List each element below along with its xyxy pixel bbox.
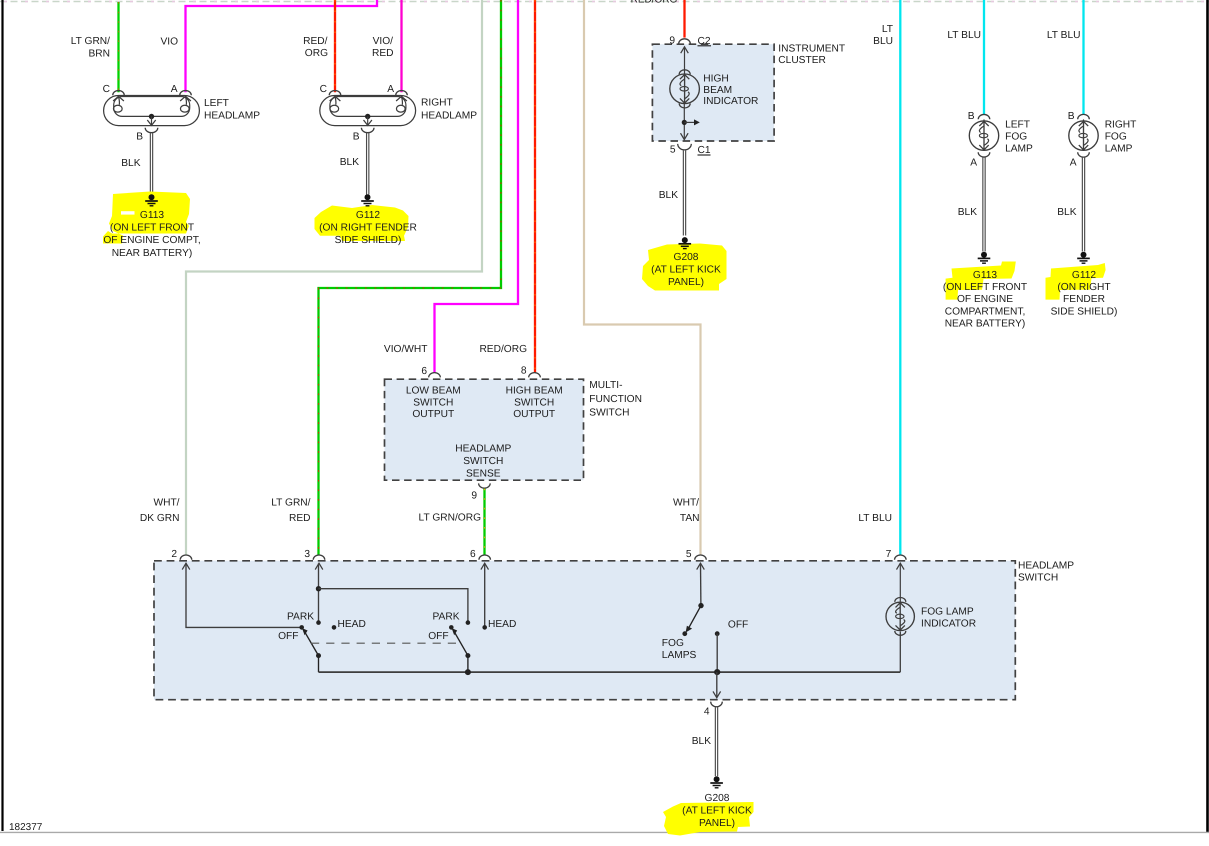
svg-text:HEADLAMP: HEADLAMP: [204, 111, 260, 122]
fog switch lever: [688, 606, 701, 630]
svg-text:LT BLU: LT BLU: [1047, 30, 1081, 41]
svg-text:7: 7: [886, 549, 892, 560]
svg-text:LT BLU: LT BLU: [858, 513, 892, 524]
svg-text:LT BLU: LT BLU: [947, 30, 981, 41]
svg-text:G208: G208: [674, 252, 699, 263]
pin 7 arrow headlamp switch: [897, 563, 905, 569]
svg-text:G113: G113: [973, 270, 997, 281]
svg-text:HEADLAMP: HEADLAMP: [1018, 561, 1074, 572]
page bottom rule: [0, 831, 1209, 833]
node pin3 branch: [316, 586, 321, 591]
svg-text:LT: LT: [882, 24, 893, 35]
ground G113 left fog: [981, 252, 987, 258]
svg-text:PARK: PARK: [287, 612, 314, 623]
svg-text:6: 6: [421, 366, 427, 377]
svg-text:SENSE: SENSE: [466, 468, 501, 479]
svg-text:RIGHT: RIGHT: [1105, 119, 1137, 130]
pin 8 connector MFS: [529, 373, 541, 378]
svg-text:(ON RIGHT FENDER: (ON RIGHT FENDER: [319, 223, 417, 234]
svg-text:(ON RIGHT: (ON RIGHT: [1057, 282, 1110, 293]
svg-text:FOG: FOG: [1105, 131, 1127, 142]
svg-text:RED: RED: [372, 48, 394, 59]
svg-text:4: 4: [704, 707, 710, 718]
svg-text:OUTPUT: OUTPUT: [513, 409, 555, 420]
highlight G208 cluster: [642, 244, 727, 291]
pin 3 arrow headlamp switch: [315, 563, 323, 569]
switch 1 (park/head/off): [299, 625, 304, 630]
pin 6 arrow headlamp switch: [481, 563, 489, 569]
svg-text:BLK: BLK: [340, 157, 359, 168]
pin 7 connector headlamp switch: [895, 555, 907, 560]
svg-text:PANEL): PANEL): [699, 818, 735, 829]
svg-text:WHT/: WHT/: [673, 498, 699, 509]
svg-text:(ON LEFT FRONT: (ON LEFT FRONT: [110, 223, 194, 234]
svg-text:G112: G112: [356, 210, 380, 221]
wire BLK left headlamp: [149, 133, 151, 195]
svg-text:SIDE SHIELD): SIDE SHIELD): [335, 235, 402, 246]
svg-text:INSTRUMENT: INSTRUMENT: [778, 44, 845, 55]
svg-text:LEFT: LEFT: [204, 98, 229, 109]
ground G208 switch: [714, 776, 720, 782]
wire LT GRN/BRN to left headlamp pin C: [117, 2, 119, 92]
pin 4 connector: [711, 702, 723, 707]
wire OFF contact to bus: [716, 634, 718, 672]
svg-text:2: 2: [171, 549, 177, 560]
svg-text:C: C: [320, 84, 327, 95]
high beam indicator connector top: [679, 70, 690, 75]
wire BLK right fog: [1081, 157, 1083, 252]
svg-text:FOG: FOG: [662, 638, 684, 649]
wire RED/ORG to MFS pin 8: [534, 0, 536, 373]
pin 5 connector C1: [678, 144, 692, 150]
svg-text:C2: C2: [698, 36, 711, 47]
svg-text:DK GRN: DK GRN: [140, 513, 180, 524]
svg-text:LAMP: LAMP: [1005, 144, 1033, 155]
pin 5 connector headlamp switch: [695, 555, 707, 560]
ground G112 right headlamp: [365, 194, 371, 200]
high beam indicator lamp: [670, 74, 700, 104]
svg-text:NEAR BATTERY): NEAR BATTERY): [112, 248, 193, 259]
svg-text:HEAD: HEAD: [338, 619, 366, 630]
svg-text:BLK: BLK: [121, 158, 140, 169]
wire RED/ORG to instrument cluster pin 9: [683, 0, 685, 38]
headlamp switch box: [154, 561, 1015, 700]
svg-text:FOG: FOG: [1005, 131, 1027, 142]
highlight G112 right fog: [1046, 263, 1106, 300]
brown tracer on LT GRN/BRN: [118, 2, 120, 92]
orange tracer LT GRN/ORG: [484, 489, 486, 556]
svg-text:PANEL): PANEL): [668, 277, 704, 288]
wire BLK right headlamp: [366, 133, 368, 195]
wire bus to pin 4: [716, 672, 718, 697]
right fog lamp: [1078, 114, 1090, 119]
multi-function switch box: [385, 379, 584, 480]
wire LT BLU to left fog lamp: [983, 0, 985, 115]
svg-text:CLUSTER: CLUSTER: [778, 55, 826, 66]
svg-text:(AT LEFT KICK: (AT LEFT KICK: [682, 805, 752, 816]
svg-text:G113: G113: [140, 210, 164, 221]
svg-text:BLU: BLU: [873, 36, 893, 47]
svg-text:INDICATOR: INDICATOR: [921, 619, 976, 630]
highlight G208 bottom: [663, 802, 754, 836]
page top dashed border: [0, 1, 1209, 3]
svg-text:HEADLAMP: HEADLAMP: [455, 443, 511, 454]
fog switch FOG contact: [682, 631, 687, 636]
node with stub arrow: [682, 120, 687, 125]
svg-text:RIGHT: RIGHT: [421, 98, 453, 109]
svg-text:SWITCH: SWITCH: [514, 397, 554, 408]
ground G208 instrument cluster: [682, 237, 688, 243]
svg-text:LAMP: LAMP: [1105, 144, 1133, 155]
highlight G113 left fog: [946, 262, 1016, 300]
svg-text:SWITCH: SWITCH: [463, 456, 503, 467]
wire indicator to bus: [899, 632, 901, 673]
bus wire across switch: [319, 671, 901, 673]
svg-text:HEAD: HEAD: [488, 619, 516, 630]
wire VIO/WHT to MFS pin 6: [435, 0, 519, 373]
pin 5 arrow headlamp switch: [697, 563, 705, 569]
wire LT GRN/RED to switch pin 3: [319, 0, 502, 556]
wire WHT/TAN to switch pin 5: [584, 0, 701, 556]
ground G112 right fog: [1081, 252, 1087, 258]
wire VIO/RED to right headlamp pin A: [400, 0, 402, 92]
highlight G112 right: [315, 205, 409, 241]
page left border: [1, 0, 3, 831]
svg-text:A: A: [171, 84, 178, 95]
fog switch pivot: [698, 603, 703, 608]
svg-text:BEAM: BEAM: [703, 85, 732, 96]
pin 6 connector MFS: [429, 373, 441, 378]
highlight G113 left: [103, 192, 190, 244]
svg-text:VIO/WHT: VIO/WHT: [384, 344, 428, 355]
svg-text:FUNCTION: FUNCTION: [589, 394, 642, 405]
wire LT BLU to right fog lamp: [1082, 0, 1084, 115]
wire pin5 to fog switch: [700, 563, 702, 605]
orange tracer on RED/ORG 2: [534, 0, 536, 373]
svg-text:BLK: BLK: [958, 207, 977, 218]
svg-text:MULTI-: MULTI-: [589, 380, 622, 391]
wire RED/ORG to right headlamp pin C: [334, 0, 336, 92]
svg-text:A: A: [387, 84, 394, 95]
svg-text:VIO/: VIO/: [373, 36, 394, 47]
svg-text:RED: RED: [289, 513, 311, 524]
svg-text:LAMPS: LAMPS: [662, 650, 697, 661]
pin 3 connector headlamp switch: [313, 555, 325, 560]
bus node pin4: [714, 669, 720, 675]
svg-text:A: A: [1070, 158, 1077, 169]
svg-text:SWITCH: SWITCH: [1018, 573, 1058, 584]
svg-text:BLK: BLK: [659, 190, 678, 201]
orange tracer on RED/ORG: [334, 0, 336, 92]
svg-text:9: 9: [471, 491, 477, 502]
fog lamp indicator connector bottom: [895, 631, 906, 635]
svg-text:3: 3: [304, 549, 310, 560]
svg-text:LEFT: LEFT: [1005, 119, 1030, 130]
wire pin2 to OFF contact: [186, 563, 302, 627]
pin 2 connector headlamp switch: [180, 555, 192, 560]
svg-text:5: 5: [686, 549, 692, 560]
svg-text:OFF: OFF: [278, 631, 298, 642]
wire BLK instrument cluster: [682, 150, 684, 235]
wire VIO to left headlamp pin A: [186, 0, 378, 92]
svg-text:LOW BEAM: LOW BEAM: [406, 386, 461, 397]
wire pin7 to fog lamp indicator: [899, 563, 901, 601]
wire pin6 to HEAD contact: [484, 563, 486, 627]
fog switch OFF contact: [715, 631, 720, 636]
pin 9 connector C2: [679, 39, 691, 44]
svg-text:9: 9: [669, 36, 675, 47]
svg-text:RED/ORG: RED/ORG: [479, 344, 527, 355]
svg-text:NEAR BATTERY): NEAR BATTERY): [945, 318, 1026, 329]
svg-text:BLK: BLK: [1057, 207, 1076, 218]
svg-text:LT GRN/ORG: LT GRN/ORG: [419, 513, 482, 524]
svg-text:B: B: [1068, 111, 1075, 122]
svg-text:B: B: [353, 132, 360, 143]
pin 6 connector headlamp switch: [479, 555, 491, 560]
svg-text:C: C: [103, 84, 110, 95]
wire pin3 node to switch2 PARK: [319, 589, 468, 623]
wire pin3 to PARK contact: [318, 563, 320, 622]
svg-text:HIGH BEAM: HIGH BEAM: [506, 386, 563, 397]
wire LT GRN/ORG pin9 to pin6: [483, 489, 485, 556]
svg-text:ORG: ORG: [305, 48, 328, 59]
svg-text:(AT LEFT KICK: (AT LEFT KICK: [651, 265, 721, 276]
wire WHT/DK GRN to switch pin 2: [186, 0, 482, 556]
switch 2 (park/head/off): [449, 625, 454, 630]
svg-text:8: 8: [521, 366, 527, 377]
instrument cluster box: [652, 44, 774, 141]
high beam indicator connector bottom: [679, 103, 690, 108]
svg-text:OFF: OFF: [428, 631, 448, 642]
svg-text:G208: G208: [705, 793, 730, 804]
svg-text:182377: 182377: [9, 822, 43, 833]
wire LT BLU to switch pin 7: [899, 0, 901, 556]
svg-text:INDICATOR: INDICATOR: [703, 96, 758, 107]
svg-text:C1: C1: [698, 145, 711, 156]
svg-text:LT GRN/: LT GRN/: [271, 498, 310, 509]
svg-text:FOG LAMP: FOG LAMP: [921, 607, 974, 618]
svg-text:VIO: VIO: [160, 37, 178, 48]
wire into high beam indicator: [684, 47, 686, 75]
arrow to pin 5: [681, 133, 689, 139]
svg-text:SWITCH: SWITCH: [589, 407, 629, 418]
pin 2 arrow headlamp switch: [182, 563, 190, 569]
pin 9 connector MFS: [479, 483, 491, 488]
svg-text:OF ENGINE COMPT,: OF ENGINE COMPT,: [103, 235, 200, 246]
svg-text:6: 6: [470, 549, 476, 560]
svg-text:B: B: [136, 132, 143, 143]
svg-text:WHT/: WHT/: [153, 498, 179, 509]
svg-text:PARK: PARK: [433, 612, 460, 623]
svg-text:OFF: OFF: [728, 620, 748, 631]
wire BLK switch pin4: [714, 707, 716, 776]
page right border: [1206, 0, 1209, 832]
fog lamp indicator lamp: [886, 602, 914, 630]
svg-text:HIGH: HIGH: [703, 74, 728, 85]
svg-text:G112: G112: [1072, 270, 1096, 281]
left headlamp housing: [104, 96, 200, 126]
svg-text:OF ENGINE: OF ENGINE: [957, 294, 1013, 305]
right headlamp housing: [320, 96, 416, 126]
ganged switch linkage: [311, 642, 458, 644]
svg-text:SIDE SHIELD): SIDE SHIELD): [1051, 306, 1118, 317]
svg-text:TAN: TAN: [680, 513, 700, 524]
fog lamp indicator connector top: [895, 598, 906, 602]
svg-text:BRN: BRN: [88, 49, 110, 60]
svg-text:A: A: [970, 158, 977, 169]
red tracer on LT GRN/RED: [319, 0, 502, 556]
wire lamp to node: [683, 104, 685, 140]
svg-text:RED/ORG: RED/ORG: [631, 0, 678, 6]
bus node switch2: [465, 669, 471, 675]
svg-text:BLK: BLK: [692, 736, 711, 747]
svg-text:5: 5: [670, 145, 676, 156]
ground G113 left headlamp: [149, 194, 155, 200]
svg-text:COMPARTMENT,: COMPARTMENT,: [945, 306, 1026, 317]
svg-text:FENDER: FENDER: [1063, 294, 1105, 305]
left fog lamp: [978, 114, 990, 119]
svg-text:RED/: RED/: [303, 36, 328, 47]
svg-text:LT GRN/: LT GRN/: [71, 36, 110, 47]
svg-text:SWITCH: SWITCH: [413, 397, 453, 408]
svg-text:HEADLAMP: HEADLAMP: [421, 111, 477, 122]
svg-text:OUTPUT: OUTPUT: [412, 409, 454, 420]
svg-text:(ON LEFT FRONT: (ON LEFT FRONT: [943, 282, 1027, 293]
svg-text:B: B: [968, 111, 975, 122]
wire BLK left fog: [982, 157, 984, 252]
